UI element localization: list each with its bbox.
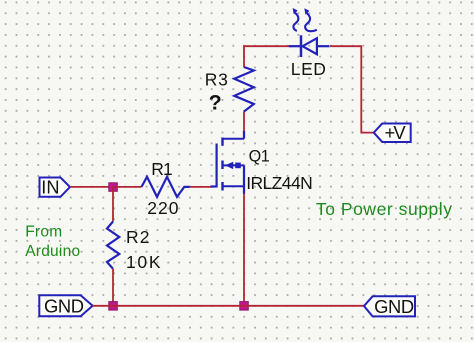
- wire R3 to LED: [244, 46, 292, 67]
- wire node A down to R2: [112, 187, 114, 222]
- junction node C: [109, 302, 118, 311]
- LED light arrow 2: [304, 8, 317, 31]
- wire node A to R1: [113, 186, 142, 188]
- wire Q1 drain to R3: [243, 112, 245, 131]
- svg-text:R1: R1: [151, 159, 172, 179]
- resistor R3: [234, 67, 254, 112]
- svg-text:GND: GND: [374, 296, 414, 317]
- svg-text:To Power supply: To Power supply: [316, 199, 453, 219]
- wire node B to GND right: [244, 305, 364, 307]
- annotation From Arduino: [25, 223, 80, 260]
- wire R1 to Q1 gate: [190, 186, 212, 188]
- svg-text:GND: GND: [44, 296, 84, 317]
- wire LED to +V: [330, 46, 374, 132]
- svg-text:IRLZ44N: IRLZ44N: [246, 173, 312, 193]
- svg-text:From: From: [25, 223, 62, 240]
- svg-text:LED: LED: [291, 59, 327, 79]
- junction node A: [109, 183, 118, 192]
- svg-text:+V: +V: [385, 122, 407, 143]
- svg-text:?: ?: [209, 90, 222, 114]
- junction node B: [240, 302, 249, 311]
- port IN: [40, 178, 71, 198]
- svg-text:Q1: Q1: [249, 147, 270, 165]
- wire Q1 source to node B: [243, 194, 245, 304]
- port +V: [374, 122, 411, 143]
- wire IN to node A: [70, 186, 113, 188]
- svg-text:R2: R2: [126, 227, 151, 247]
- svg-text:Arduino: Arduino: [25, 243, 80, 260]
- wire R2 to node C: [112, 269, 114, 303]
- LED light arrow 1: [293, 8, 299, 31]
- svg-text:IN: IN: [41, 178, 59, 198]
- LED D1: [289, 35, 330, 57]
- resistor R2: [107, 222, 119, 269]
- svg-text:220: 220: [147, 198, 179, 218]
- wire GND left to node C: [93, 305, 113, 307]
- svg-text:10K: 10K: [126, 252, 162, 272]
- transistor Q1 (N-MOSFET): [211, 131, 245, 194]
- svg-text:R3: R3: [205, 69, 229, 89]
- port GND right: [364, 296, 415, 317]
- resistor R1: [142, 177, 190, 197]
- port GND left: [39, 295, 92, 317]
- wire node C to node B: [113, 305, 244, 307]
